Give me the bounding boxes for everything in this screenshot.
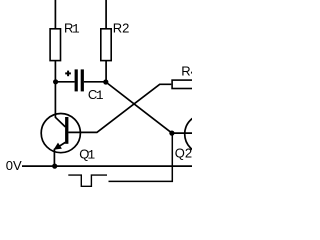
svg-text:Q1: Q1 xyxy=(79,147,95,163)
svg-text:Q2: Q2 xyxy=(175,145,192,160)
svg-text:R2: R2 xyxy=(113,20,130,35)
svg-text:C1: C1 xyxy=(88,87,104,103)
svg-text:R4: R4 xyxy=(181,64,192,79)
svg-text:0V: 0V xyxy=(6,158,22,173)
svg-text:R1: R1 xyxy=(64,20,80,36)
